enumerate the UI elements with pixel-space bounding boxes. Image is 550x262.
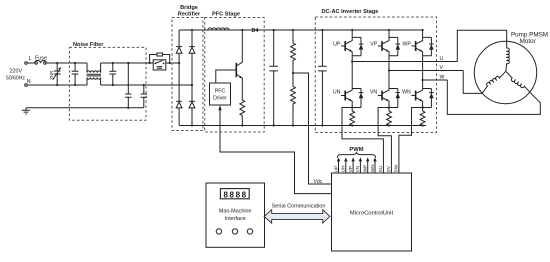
diode DUN [352,89,361,108]
serial arrow [264,210,330,223]
wire L input [27,62,87,64]
transistor UN [351,60,353,62]
svg-text:UP: UP [333,166,338,173]
wire SU sense [342,108,383,174]
wire U to motor [457,30,506,61]
wire PWM VP [352,161,354,173]
display 8888 [220,189,249,199]
wire PWM VN [359,161,361,173]
svg-text:Fuse: Fuse [35,55,47,61]
svg-text:Man-Machine: Man-Machine [219,208,252,214]
svg-text:SU: SU [378,165,383,172]
svg-text:Bridge: Bridge [180,5,198,11]
wire DC- bus [179,125,426,127]
wire PWM UP [338,161,340,173]
svg-text:UP: UP [333,41,341,47]
wire earth rail [26,107,144,109]
svg-text:UN: UN [341,166,346,173]
diode DUP [352,37,361,55]
wire phase V [389,70,463,72]
svg-text:WN: WN [370,164,375,172]
bridge rectifier box [172,18,203,131]
svg-text:L: L [29,56,32,62]
svg-text:MicroControlUnit: MicroControlUnit [350,211,394,217]
wire phase U [352,61,457,63]
wire PFC driver to MCU [220,110,332,194]
resistor R1 (PFC shunt) [240,100,245,126]
svg-text:U: U [440,56,444,62]
capacitor CY1 [125,63,131,108]
svg-text:Noise Filter: Noise Filter [73,42,104,48]
svg-text:WP: WP [363,165,368,173]
node V emitter [388,106,390,108]
svg-text:D4: D4 [252,28,259,34]
PFC stage box [205,18,265,133]
diode DVP [389,37,398,55]
capacitor C1 (DC bus) [269,30,278,126]
node U emitter [351,106,353,108]
button 3 [247,229,252,234]
node W emitter [422,106,424,108]
inductor motor winding W [506,71,532,94]
transistor VP [388,29,390,31]
resistor R2 (divider top) [291,30,296,73]
svg-text:VP: VP [370,41,377,47]
wire Vdc sense [293,73,332,184]
fuse F1 [35,61,47,63]
wire relay bypass [150,55,170,64]
svg-text:Motor: Motor [520,38,536,45]
diode DWP [423,37,432,55]
MMI box [206,183,265,247]
svg-text:SW: SW [394,164,399,172]
wire relay to bridge [166,62,179,64]
diode D5 [189,100,195,102]
svg-text:8888: 8888 [223,191,247,200]
svg-text:SV: SV [386,165,391,172]
resistor RU shunt [350,108,355,126]
MCU box U3 [332,173,412,251]
wire N mid [101,84,192,86]
svg-text:220V: 220V [10,68,23,74]
capacitor C2 (DC bus) [318,30,327,126]
svg-text:Vdc: Vdc [314,179,323,185]
svg-text:UN: UN [333,89,341,95]
transistor VN [388,69,390,71]
svg-text:ZNR: ZNR [49,71,54,80]
svg-text:WP: WP [402,41,411,47]
wire DC+ bus [179,29,423,31]
node L terminal [25,62,28,65]
svg-text:W: W [440,75,445,81]
PFC driver box U2 [210,83,231,105]
button 1 [216,229,221,234]
svg-text:DC-AC Inverter Stage: DC-AC Inverter Stage [322,9,379,15]
node Vdc tap [292,72,294,74]
wire PWM WP [367,161,369,173]
wire phase W [423,79,448,81]
svg-text:PFC: PFC [215,88,226,94]
wire N input [27,84,87,86]
capacitor CX1 [72,63,79,85]
noise filter box [69,47,146,120]
motor M1 circle [474,41,536,103]
inductor common-mode choke L1 [87,63,101,73]
node N terminal [25,84,28,87]
svg-text:PFC Stage: PFC Stage [212,12,240,18]
transistor UP [351,29,353,31]
varistor ZNR [54,63,61,85]
diode DWN [423,89,432,108]
capacitor CX2 [109,63,116,85]
resistor RW shunt [420,108,425,126]
inductor L2 (boost) [208,28,229,30]
svg-text:VN: VN [355,166,360,173]
relay K1 [146,62,153,64]
transistor WP [422,29,424,31]
svg-text:VP: VP [348,166,353,172]
capacitor CY2 [141,85,147,108]
wire PWM UN [345,161,347,173]
resistor RV shunt [387,108,392,126]
diode DVN [389,89,398,108]
svg-text:Serial Communication: Serial Communication [272,204,326,210]
ground [22,108,30,114]
inductor motor winding U [506,48,510,71]
wire bridge left rail [178,30,180,126]
wire SV sense [378,108,391,174]
svg-text:Driver: Driver [213,96,227,102]
inductor motor winding V [482,71,506,93]
DC-AC inverter box [315,17,436,133]
svg-text:Interface: Interface [225,216,246,222]
diode D1 [176,46,182,48]
wire L mid [101,62,150,64]
transistor WN [422,79,424,81]
svg-text:Rectifier: Rectifier [178,12,201,18]
wire bridge right rail [191,30,193,126]
resistor inrush (bypass) [157,53,163,56]
diode D3 [176,100,182,102]
svg-text:V: V [440,65,444,71]
svg-text:N: N [27,79,31,85]
brace PWM group [337,153,375,158]
wire W to motor [447,80,540,114]
resistor R3 (divider bottom) [291,73,296,126]
svg-text:50/60Hz: 50/60Hz [6,75,25,81]
svg-text:WN: WN [402,89,411,95]
wire V to motor [463,71,482,94]
button 2 [232,229,237,234]
diode D2 [189,46,195,48]
svg-text:VN: VN [370,89,377,95]
wire Q1 base [216,70,237,83]
transistor Q1 (PFC switch) [241,29,243,31]
wire SW sense [399,108,423,174]
wire PWM WN [374,161,376,173]
